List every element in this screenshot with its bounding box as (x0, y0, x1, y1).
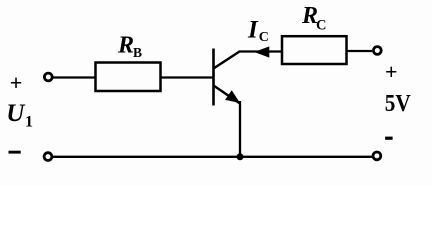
svg-text:1: 1 (25, 114, 33, 131)
svg-text:B: B (133, 45, 142, 60)
svg-text:+: + (385, 59, 398, 84)
svg-text:U: U (6, 100, 26, 127)
svg-text:5V: 5V (385, 91, 412, 117)
svg-text:I: I (247, 17, 259, 44)
svg-text:+: + (10, 70, 23, 95)
svg-text:C: C (259, 30, 269, 45)
svg-text:C: C (316, 17, 326, 33)
svg-text:R: R (117, 33, 134, 59)
